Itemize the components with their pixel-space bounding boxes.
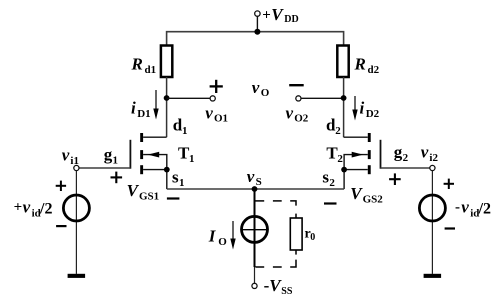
transistor T2 channel bar top (368, 133, 371, 142)
svg-text:2: 2 (335, 125, 341, 137)
junction dot drain node D1 (164, 95, 170, 101)
wire T2 body lead with arrow (344, 155, 368, 170)
current source IO diameter bar (242, 229, 268, 231)
label + above vO1 (210, 80, 223, 93)
svg-text:/2: /2 (478, 201, 491, 218)
arrow iD2 current direction (352, 96, 357, 121)
node -VSS open terminal circle (252, 283, 257, 288)
svg-text:2: 2 (337, 153, 343, 165)
label + of left source (56, 181, 66, 191)
wire current source branch (254, 189, 256, 267)
svg-text:D2: D2 (366, 108, 380, 120)
wire T1 drain lead (143, 136, 167, 138)
svg-text:s: s (322, 168, 329, 187)
svg-text:V: V (269, 276, 282, 295)
current source IO circle (242, 216, 268, 242)
label iD2 (360, 99, 380, 121)
wire T1 source lead (143, 170, 167, 189)
wire left input column (75, 171, 77, 274)
svg-text:2: 2 (403, 152, 409, 164)
svg-text:O: O (218, 236, 227, 248)
transistor T1 channel bar middle (140, 150, 143, 159)
arrow T2 body pointing right (352, 152, 363, 158)
label Rd2 (354, 55, 380, 77)
label Rd1 (131, 55, 157, 77)
label vi2 (421, 143, 439, 165)
svg-text:1: 1 (113, 155, 119, 167)
svg-text:s: s (172, 168, 179, 187)
transistor T2 channel bar middle (368, 150, 371, 159)
label +VDD (262, 5, 299, 25)
junction dot at VDD rail (254, 29, 260, 35)
label vO center (252, 78, 270, 99)
wire right input column (431, 171, 433, 274)
label T2 (326, 144, 343, 166)
svg-text:0: 0 (310, 232, 315, 243)
label +vid/2 (14, 198, 53, 220)
junction dot drain node D2 (341, 95, 347, 101)
ground right (424, 274, 442, 278)
label + of right source (444, 179, 454, 189)
dashed box around r0 (255, 201, 296, 267)
transistor T2 channel bar bottom (368, 165, 371, 174)
transistor T1 channel bar bottom (140, 165, 143, 174)
label -vid/2 (455, 198, 491, 220)
wire Rd2 bottom to drain node (343, 77, 345, 137)
label r0 (305, 227, 316, 244)
svg-text:R: R (131, 55, 143, 74)
label minus of left source (56, 225, 66, 227)
label minus of right source (445, 227, 455, 229)
wire T2 source lead (344, 170, 368, 189)
label minus of VGS1 (167, 197, 180, 199)
svg-text:d2: d2 (368, 64, 380, 76)
label vO1 (205, 104, 228, 125)
label vO2 (286, 104, 309, 125)
svg-text:+: + (14, 200, 23, 216)
source circle right (419, 195, 445, 221)
wire T2 drain lead (344, 136, 368, 138)
label s1 (172, 168, 185, 190)
svg-text:S: S (256, 176, 262, 188)
svg-text:V: V (271, 5, 284, 24)
ground left (68, 274, 86, 278)
svg-text:v: v (461, 198, 469, 217)
label d2 (326, 115, 341, 137)
transistor T1 channel bar top (140, 133, 143, 142)
svg-text:D1: D1 (137, 108, 150, 120)
label + of VGS2 (389, 173, 401, 185)
label minus above vO2 (289, 84, 304, 86)
svg-text:O2: O2 (294, 113, 309, 125)
transistor T1 gate plate (129, 140, 131, 169)
wire drain node to vO1 terminal (167, 97, 211, 99)
svg-text:+: + (262, 7, 271, 23)
svg-text:v: v (252, 78, 260, 97)
label -VSS (264, 276, 293, 297)
svg-text:i2: i2 (429, 152, 438, 164)
voltage source +vid/2 left circle (63, 171, 89, 274)
label VGS1 (127, 181, 160, 203)
voltage source -vid/2 right circle (419, 171, 445, 274)
svg-text:GS1: GS1 (139, 191, 159, 203)
transistor T2 gate plate (380, 140, 382, 169)
node vO2 open terminal circle (296, 96, 301, 101)
source circle left (63, 195, 89, 221)
arrow iD1 current direction (153, 90, 158, 120)
label vS (247, 167, 262, 188)
svg-text:g: g (104, 145, 113, 164)
label + of VGS1 (111, 172, 123, 184)
wire vS rail (167, 188, 344, 190)
svg-text:/2: /2 (39, 201, 52, 218)
wire Rd1 bottom to drain node (166, 77, 168, 137)
svg-text:1: 1 (182, 125, 188, 137)
wire gate g2 from input terminal (381, 167, 430, 169)
label g1 (104, 145, 118, 167)
junction dot vS node (252, 186, 258, 192)
wire gate g1 from input terminal (79, 167, 130, 169)
label VGS2 (350, 184, 383, 206)
svg-text:-: - (455, 200, 460, 216)
label IO (208, 227, 228, 249)
svg-text:v: v (62, 145, 70, 164)
svg-text:i: i (360, 99, 365, 118)
svg-text:V: V (127, 181, 140, 200)
node +VDD terminal stub (256, 16, 258, 32)
node vi1 open terminal circle (74, 165, 79, 170)
svg-text:O: O (261, 87, 270, 99)
label g2 (394, 143, 409, 165)
arrow T1 body pointing left (148, 152, 159, 158)
svg-text:1: 1 (189, 153, 195, 165)
svg-text:DD: DD (284, 14, 298, 25)
svg-text:SS: SS (281, 286, 293, 297)
resistor r0 (290, 218, 302, 250)
resistor Rd2 (337, 46, 348, 78)
svg-text:O1: O1 (214, 113, 228, 125)
resistor Rd1 (161, 46, 172, 78)
svg-text:g: g (394, 143, 403, 162)
svg-text:v: v (421, 143, 429, 162)
junction dot source s2 (341, 167, 347, 173)
svg-text:v: v (247, 167, 255, 186)
node +VDD open terminal circle (255, 11, 260, 16)
wire top supply rail (167, 32, 344, 46)
junction dot source s1 (164, 167, 170, 173)
svg-text:R: R (354, 55, 366, 74)
svg-text:d1: d1 (145, 64, 157, 76)
wire T1 body lead with arrow (143, 155, 167, 170)
label T1 (178, 144, 195, 166)
node vO1 open terminal circle (210, 96, 215, 101)
svg-text:1: 1 (179, 177, 185, 189)
svg-text:v: v (286, 104, 294, 123)
arrow IO current direction (230, 221, 235, 250)
label d1 (173, 115, 188, 137)
svg-text:V: V (350, 184, 363, 203)
wire to -VSS terminal (254, 267, 256, 283)
svg-text:GS2: GS2 (363, 194, 384, 206)
node vi2 open terminal circle (430, 165, 435, 170)
label iD1 (131, 99, 151, 121)
label s2 (322, 168, 335, 190)
svg-text:v: v (205, 104, 213, 123)
svg-text:v: v (23, 198, 31, 217)
label minus of VGS2 (324, 202, 337, 204)
wire vO2 terminal to drain node D2 (301, 97, 344, 99)
svg-text:2: 2 (329, 177, 335, 189)
svg-text:i: i (131, 99, 136, 118)
label vi1 (62, 145, 79, 167)
